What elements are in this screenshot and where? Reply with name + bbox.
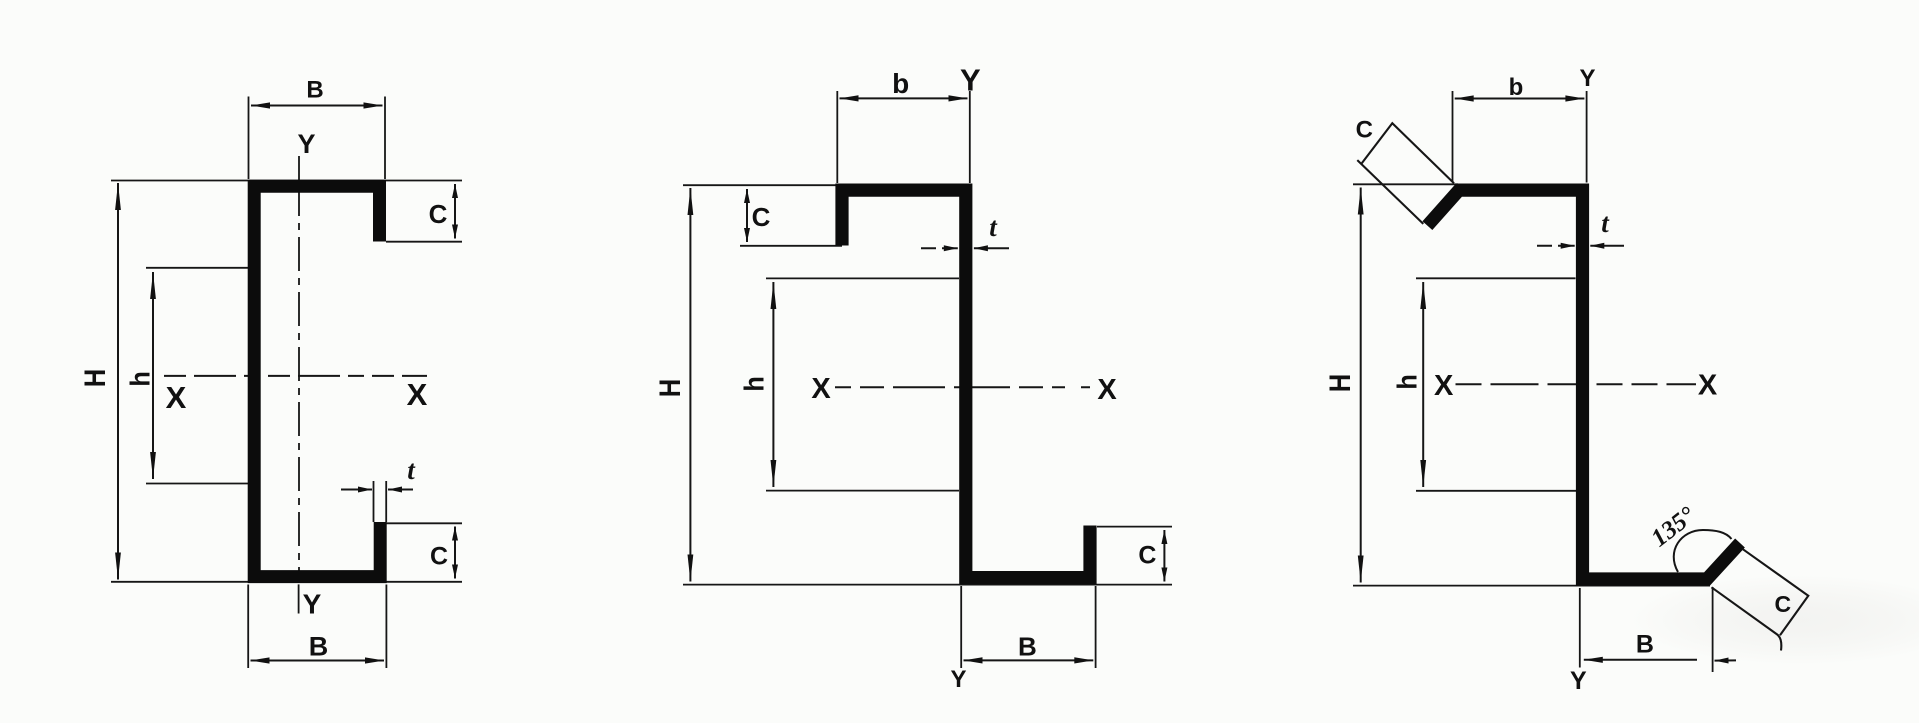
B right arrow outside [1715,659,1737,661]
dimension H [1360,188,1362,583]
svg-text:H: H [1323,374,1356,392]
X axis dashed line [164,375,427,377]
svg-text:Y: Y [1570,667,1587,695]
B bottom extension right [385,585,387,669]
135 degree arc [1674,530,1732,572]
Z-section profile outline [842,190,1090,577]
b left extension [836,91,838,183]
t left arrow (dashed) [921,247,958,249]
svg-text:X: X [1434,370,1454,402]
C bottom-right top extension [1097,526,1172,528]
C top-left extension + dimension polyline [1361,123,1454,183]
svg-text:X: X [1698,370,1718,402]
H top extension [683,184,837,186]
paper smudge bottom right [1630,575,1919,665]
C top-left extension from lip end (with overshoot) [1357,160,1423,224]
B left extension [1579,588,1581,668]
svg-text:B: B [1018,632,1037,662]
B right extension [1095,586,1097,668]
C-section profile outline [254,186,380,576]
svg-text:B: B [1636,631,1654,659]
C bottom upper extension [386,522,462,524]
svg-text:X: X [407,377,428,412]
svg-text:h: h [738,376,770,391]
svg-text:C: C [1356,117,1373,144]
b right extension / Y axis [969,91,971,183]
svg-text:h: h [1391,374,1423,389]
C top lower extension [386,241,462,243]
dimension H [689,188,691,582]
H / B bottom extension [1353,585,1710,587]
dimension h [1422,282,1424,487]
C bottom-right extension 1 + dimension polyline [1743,549,1808,635]
b right extension / Y axis [1586,91,1588,183]
h top extension [1416,277,1576,279]
B top extension left [248,97,250,180]
dimension B [964,659,1094,661]
dimension b [1455,98,1585,100]
C bottom-right extension 2 (from flange corner, with hook) [1712,587,1782,650]
t right extension [385,481,387,522]
h top extension [766,277,959,279]
t right arrow [974,247,1009,249]
svg-text:b: b [892,68,909,99]
h bottom extension [146,483,248,485]
dimension B bottom [251,660,385,662]
Y axis upper solid segment [298,156,300,180]
svg-text:B: B [309,632,329,662]
Y axis lower solid segment [298,584,300,613]
svg-text:H: H [78,369,111,387]
B left extension [960,586,962,668]
H top extension [1353,183,1458,185]
svg-text:b: b [1509,74,1524,101]
b left extension [1452,91,1454,182]
H / C bottom extension [683,584,1172,586]
t right arrow [1590,245,1624,247]
Z-section with sloped lips profile outline [1427,190,1740,579]
h bottom extension [1416,490,1576,492]
B top extension right [384,97,386,180]
svg-text:C: C [752,202,771,232]
svg-text:Y: Y [303,589,322,620]
svg-text:B: B [306,77,323,104]
t right arrow [388,489,413,491]
dimension H [117,183,119,580]
C top-left lower extension [740,245,842,247]
dimension B top [251,105,383,107]
dimension C bottom-right [1163,530,1165,582]
B bottom extension left [247,585,249,669]
dimension b [840,97,968,99]
Y axis centerline dash-dot [298,182,300,574]
t left arrow [341,489,372,491]
dimension C top-left [746,189,748,242]
svg-text:C: C [429,199,448,229]
dimension B (left arrow inside) [1584,659,1697,661]
t left arrow (dashed) [1537,245,1575,247]
svg-text:Y: Y [1579,65,1595,92]
svg-text:X: X [1097,374,1117,406]
svg-text:C: C [1774,591,1791,617]
B right extension [1712,587,1714,672]
svg-text:h: h [124,371,156,386]
svg-text:Y: Y [297,129,315,159]
svg-text:X: X [166,380,187,415]
svg-text:X: X [811,373,831,405]
H top extension line [111,180,462,182]
C bottom dimension [454,527,456,579]
C top dimension [454,184,456,239]
X axis dashed [1456,383,1697,385]
svg-text:C: C [430,543,448,571]
svg-text:Y: Y [950,666,966,693]
H bottom extension line [111,581,462,583]
t left extension [373,481,375,522]
svg-text:H: H [653,379,686,397]
h bottom extension [766,490,959,492]
svg-text:C: C [1138,542,1156,570]
X axis dashed [835,386,1098,388]
svg-text:Y: Y [960,62,981,97]
h top extension [146,267,248,269]
dimension h [772,282,774,487]
dimension h [152,272,154,479]
